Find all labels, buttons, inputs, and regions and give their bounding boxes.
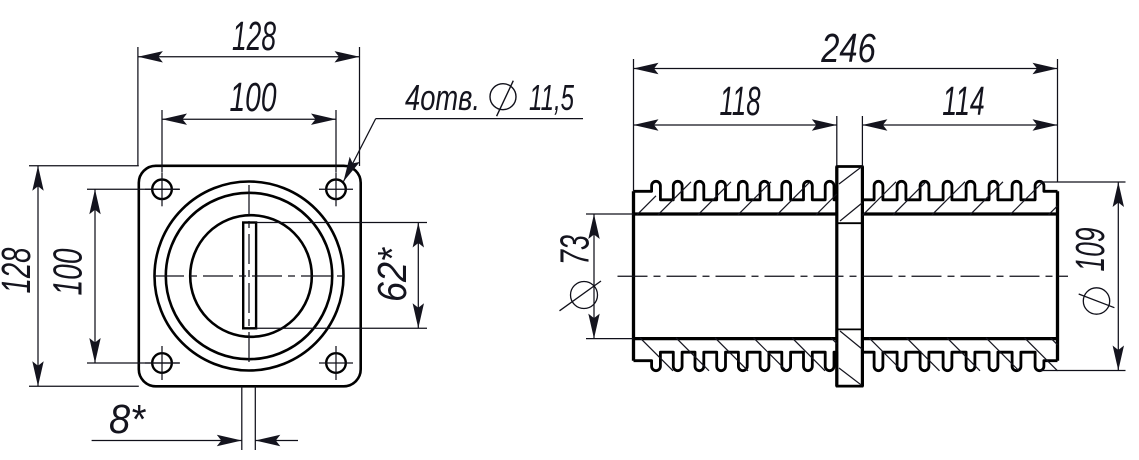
dim D109 extension lines <box>1040 181 1126 183</box>
dim 100 top extension lines <box>161 110 163 172</box>
bore wall bottom right <box>862 337 1057 340</box>
bolt hole 2 D11.5 <box>326 180 346 200</box>
svg-text:100: 100 <box>230 74 277 120</box>
ribbed body top profile <box>634 167 1058 200</box>
svg-text:100: 100 <box>45 248 91 295</box>
left end face <box>632 191 635 360</box>
vertical centerline left view <box>248 185 250 367</box>
dim 62 extension lines <box>255 222 427 224</box>
dim 8 extension lines <box>241 386 243 450</box>
svg-text:73: 73 <box>551 235 597 265</box>
horizontal centerline left view <box>154 275 344 277</box>
dim 118 extension line <box>836 116 838 167</box>
center partition right wall <box>861 167 864 387</box>
right end face <box>1056 191 1059 360</box>
middle circle D96 <box>166 193 332 359</box>
svg-text:246: 246 <box>820 25 875 71</box>
svg-text:128: 128 <box>0 247 39 293</box>
svg-text:118: 118 <box>720 78 761 124</box>
partition step top <box>837 222 863 224</box>
dim D109 dimension line <box>1117 182 1119 371</box>
dim 246 dimension line <box>634 68 1058 70</box>
svg-text:62*: 62* <box>369 246 415 302</box>
svg-text:4отв.: 4отв. <box>405 77 480 118</box>
dim 246 extension lines <box>633 59 635 191</box>
dim 114 dimension line <box>862 124 1057 126</box>
dim 8 dimension line right <box>255 440 298 442</box>
dim 128 top extension lines <box>137 47 139 166</box>
dim 62 dimension line <box>417 223 419 329</box>
centerline right view <box>618 275 1069 277</box>
dim D73 text <box>571 282 598 309</box>
bore wall top left <box>634 212 837 215</box>
bolt hole 3 D11.5 <box>152 353 172 373</box>
dim 114 extension line <box>861 116 863 167</box>
hatching center flange top <box>839 167 862 184</box>
leader line for hole callout <box>376 118 583 120</box>
section hatching top band <box>637 196 656 215</box>
inner circle D70 <box>190 215 312 337</box>
center partition left wall <box>835 167 838 387</box>
dim 100 left extension lines <box>87 188 180 190</box>
svg-text:8*: 8* <box>109 396 147 442</box>
svg-text:128: 128 <box>232 13 276 59</box>
flange plate outline (128x128 rounded square) <box>139 166 361 386</box>
dim D73 dimension line <box>593 214 595 339</box>
hole callout diameter symbol <box>490 84 516 110</box>
dim 100 left dimension line <box>94 189 96 363</box>
dim 128 left dimension line <box>37 166 39 386</box>
hatching center flange bottom <box>839 368 862 385</box>
dim 8 dimension line left <box>92 440 242 442</box>
bore wall top right <box>862 212 1057 215</box>
dim D109 text <box>1083 288 1109 314</box>
svg-text:114: 114 <box>942 78 985 124</box>
partition step bottom <box>837 328 863 330</box>
ribbed body bottom profile <box>634 352 1058 386</box>
section hatching bottom band <box>640 338 673 371</box>
bolt hole 4 D11.5 <box>326 353 346 373</box>
bore wall bottom left <box>634 337 837 340</box>
bolt hole 1 D11.5 <box>152 180 172 200</box>
outer circle D109 <box>155 182 344 371</box>
dim 100 top dimension line <box>162 118 336 120</box>
central slot 8x62 <box>243 223 256 329</box>
svg-text:109: 109 <box>1067 228 1113 272</box>
dim 128 top dimension line <box>138 56 360 58</box>
svg-text:11,5: 11,5 <box>529 77 575 118</box>
dim 118 dimension line <box>634 124 837 126</box>
dim 128 left extension lines <box>29 165 139 167</box>
dim D73 extension lines <box>586 213 634 215</box>
